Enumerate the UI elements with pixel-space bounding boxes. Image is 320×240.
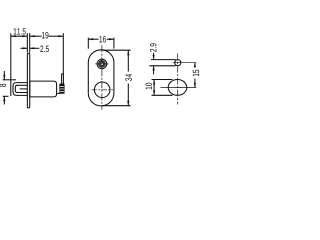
dimension 10 top arrow (153, 80, 155, 85)
screw hole bottom tangent extension (149, 65, 175, 67)
dimension 10 line (153, 80, 155, 96)
plunger rubber cap (13, 83, 27, 96)
side view: extension line plate rear face (29, 33, 31, 52)
screw hole inner circle (100, 62, 104, 66)
dimension 8 bottom extension (3, 95, 9, 97)
screw hole outer circle (97, 59, 107, 69)
terminal blade (62, 74, 64, 84)
screw hole horizontal crosshair (95, 63, 108, 65)
dimension 8 bottom arrow (3, 96, 5, 104)
screw hole centerline horizontal (173, 62, 197, 64)
screw hole top tangent extension (151, 59, 176, 61)
dimension 34 label (125, 74, 132, 81)
dimension 16 label (99, 36, 106, 43)
dimension 2.5 leader left tail (20, 47, 27, 49)
dimension 16 right arrow (109, 38, 114, 40)
plunger stem top line (20, 84, 28, 86)
crimp ridge notch 3 (60, 91, 64, 93)
dimension 19 right arrow (58, 35, 63, 37)
crimp base line (57, 92, 60, 94)
plunger hole centerline horizontal (161, 86, 197, 88)
plunger stem mid line (20, 88, 28, 90)
dimension 2.5 label (40, 46, 49, 53)
dimension 11.5 line (11, 35, 28, 37)
dimension 10 bottom arrow (153, 90, 155, 95)
plunger hole bottom tangent extension (152, 94, 173, 96)
mounting plate (side view) (27, 53, 29, 108)
dimension 34 top extension (103, 49, 131, 51)
front view vertical centerline (101, 45, 103, 109)
dimension 34 line top segment with arrow (127, 50, 129, 71)
dimension 19 line left segment (30, 35, 42, 37)
detail view: screw hole circle (175, 60, 181, 66)
plunger bellows fold (15, 85, 19, 92)
dimension 2.5 left arrow (23, 47, 27, 49)
dimension 16 line left segment (88, 38, 98, 40)
dimension 2.9 label (150, 43, 157, 52)
dimension 2.5 right arrow (30, 47, 35, 49)
dimension 34 bottom extension (103, 105, 131, 107)
switch body (side view) (30, 81, 57, 97)
dimension 34 line bottom segment with arrow (127, 84, 129, 106)
dimension 15 top arrow (194, 63, 196, 67)
dimension 19 label (42, 32, 49, 39)
dimension 11.5 label (14, 28, 26, 34)
dimension 2.5 right tail (30, 47, 40, 49)
plunger stem bottom line (20, 92, 28, 94)
detail view: plunger hole circle (168, 80, 187, 96)
plunger hole top tangent extension (152, 79, 173, 81)
screw hole middle circle (99, 61, 105, 67)
dimension 2.9 bottom arrow (153, 66, 155, 75)
side view: extension line at plunger tip (10, 33, 12, 96)
dimension 15 bottom arrow (194, 83, 196, 88)
dimension 11.5 left arrow (11, 35, 16, 37)
dimension 11.5 right arrow (22, 35, 27, 37)
crimp ridge notch 2 (60, 88, 64, 90)
dimension 15 line top segment (194, 63, 196, 68)
plunger hole horizontal crosshair (92, 89, 114, 91)
dimension 19 line right segment (49, 35, 64, 37)
dimension 19 left arrow (30, 35, 35, 37)
dimension 15 line bottom segment (194, 79, 196, 88)
side view: extension line plate front face (26, 33, 28, 52)
plunger hole circle (94, 82, 110, 98)
mounting plate outline (front view, stadium shape) (88, 50, 114, 106)
dimension 16 left arrow (88, 38, 93, 40)
dimension 8 top extension (3, 79, 16, 81)
dimension 15 label (193, 70, 199, 77)
crimp ridge notch 1 (60, 86, 64, 88)
front view: extension line right (113, 38, 115, 49)
terminal crimp block (60, 84, 64, 93)
dimension 8 label (0, 84, 6, 87)
dimension 16 line right segment (107, 38, 114, 40)
dimension 10 label (145, 83, 152, 90)
detail view: hole pattern vertical centerline (177, 54, 179, 105)
front view: extension line left (87, 38, 89, 49)
dimension 8 top arrow (3, 71, 5, 80)
dimension 2.9 top arrow (153, 53, 155, 60)
side view: extension line terminal end (62, 33, 64, 74)
